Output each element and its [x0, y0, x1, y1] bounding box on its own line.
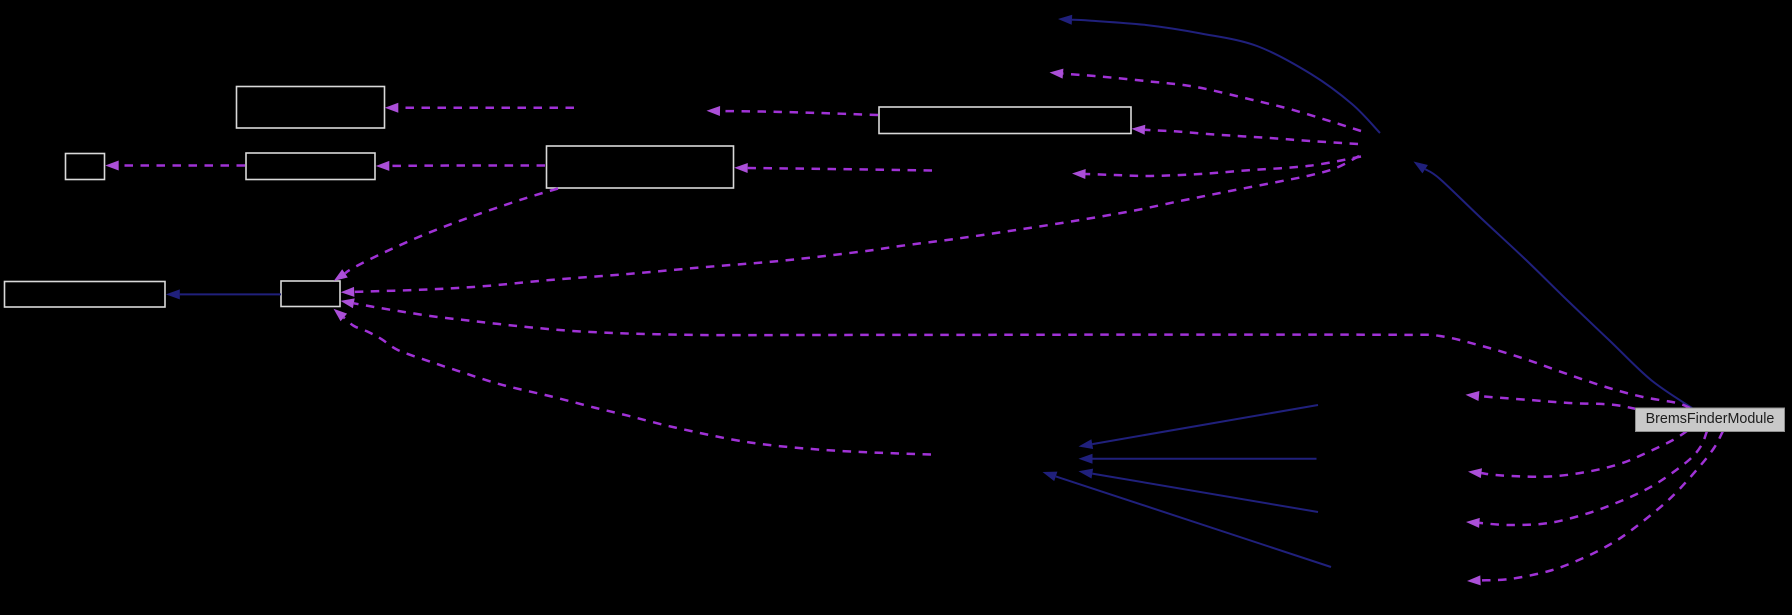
- inheritance edge A1 (solid blue, mid-bottom): [1079, 405, 1319, 449]
- usage edge BremsFinderModule->hidden (dashed fan 1): [1468, 431, 1687, 478]
- inheritance edge hidden E->hidden F top (solid blue curve): [1058, 15, 1380, 133]
- usage edge hiddenI->box1 (dashed): [385, 103, 574, 113]
- inheritance edge BremsFinderModule->hidden node E (solid blue): [1414, 162, 1693, 409]
- usage edge hiddenE->hiddenH (dashed): [1072, 157, 1361, 180]
- inheritance edge box7->box6 (solid blue): [166, 289, 281, 299]
- usage edge hiddenE->box7 (long dashed curve): [341, 156, 1359, 297]
- node box7 (small hub): [281, 281, 340, 307]
- inheritance edge A4 (solid blue): [1043, 472, 1332, 567]
- usage edge box4->box7 (dashed diagonal): [334, 189, 558, 281]
- usage edge BremsFinderModule->hidden (dashed fan 2): [1466, 431, 1707, 528]
- usage edge box3->box2 (dashed): [105, 161, 245, 171]
- node box3: [246, 153, 375, 180]
- node box5 (wide top): [879, 107, 1131, 134]
- inheritance edge A2 (solid blue horizontal): [1079, 454, 1317, 464]
- inheritance edge A3 (solid blue): [1079, 469, 1319, 512]
- node box1 (top, 2-line, invisible label): [237, 87, 385, 129]
- usage edge box5->hiddenI (dashed): [707, 106, 879, 116]
- node box2 (small left): [66, 154, 105, 180]
- node BremsFinderModule (highlighted): [1636, 408, 1785, 432]
- node box6 (bottom-left wide): [5, 282, 166, 308]
- node BremsFinderModule label text: [1636, 408, 1785, 432]
- node box4 (2-line): [547, 146, 734, 188]
- usage edge hiddenE->box5 (dashed): [1132, 125, 1359, 144]
- usage edge BremsFinderModule->hidden (dashed short left): [1466, 391, 1637, 409]
- usage edge hiddenE->hiddenG (dashed up-left): [1050, 69, 1362, 131]
- usage edge BremsFinderModule->box7 (long dashed, flat y=335): [341, 298, 1691, 408]
- usage edge box4->box3 (dashed): [376, 161, 545, 171]
- usage edge BremsFinderModule->hidden (dashed fan 3): [1467, 431, 1723, 585]
- usage edge hiddenC->box7 (long dashed lower curve): [334, 309, 932, 455]
- usage edge hiddenH->box4 (dashed): [734, 163, 932, 173]
